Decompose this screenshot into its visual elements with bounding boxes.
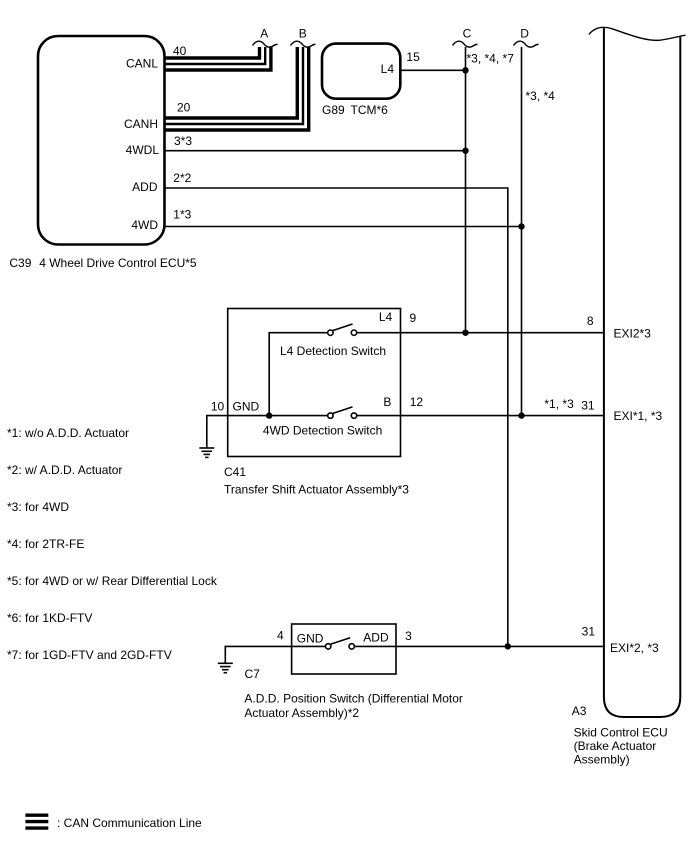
svg-text:8: 8: [587, 314, 594, 328]
svg-text:C: C: [463, 26, 472, 40]
svg-text:2*2: 2*2: [173, 171, 191, 185]
svg-text:*7: for 1GD-FTV and 2GD-FTV: *7: for 1GD-FTV and 2GD-FTV: [7, 648, 172, 662]
ground (C7): [218, 663, 233, 672]
node A break symbol: [253, 41, 278, 47]
ECU C39 box: [38, 36, 165, 245]
wire GND branch inside C41: [228, 415, 328, 417]
svg-text:9: 9: [410, 311, 417, 325]
svg-text:*3: for 4WD: *3: for 4WD: [7, 500, 69, 514]
svg-text:G89: G89: [322, 103, 345, 117]
svg-text:*5: for 4WD or w/ Rear Differe: *5: for 4WD or w/ Rear Differential Lock: [7, 574, 218, 588]
svg-text:15: 15: [406, 50, 420, 64]
svg-text:D: D: [520, 26, 529, 40]
node D break symbol: [514, 41, 539, 47]
svg-text:ADD: ADD: [132, 180, 158, 194]
svg-text:*3, *4: *3, *4: [526, 89, 556, 103]
svg-text:4: 4: [277, 629, 284, 643]
node C break symbol: [453, 41, 478, 47]
wire L4 to node C: [400, 69, 465, 71]
svg-text:EXI*2, *3: EXI*2, *3: [610, 641, 659, 655]
svg-text:40: 40: [173, 44, 187, 58]
svg-text:10: 10: [211, 399, 225, 413]
svg-text:B: B: [299, 26, 307, 40]
TCM G89 box: [322, 44, 400, 99]
svg-text:12: 12: [410, 395, 424, 409]
wire 9 to EXI2: [357, 332, 604, 334]
junction ADD-wire at C7 row: [505, 643, 511, 649]
node B break symbol: [291, 41, 316, 47]
svg-text:A: A: [260, 26, 268, 40]
svg-text:4WDL: 4WDL: [126, 143, 160, 157]
wire CANH CAN-bus to node B: [165, 47, 309, 130]
wire ADD down to C7 row: [165, 188, 508, 646]
svg-text:EXI2*3: EXI2*3: [614, 326, 652, 340]
svg-text:31: 31: [582, 625, 596, 639]
Skid Control ECU A3 box: [604, 28, 680, 717]
switch 4WD Detection Switch: [328, 413, 333, 418]
node D vertical wire: [521, 47, 523, 416]
wire 4WD to node D: [165, 226, 522, 228]
svg-text:31: 31: [581, 399, 595, 413]
svg-text:C7: C7: [245, 667, 261, 681]
switch A.D.D. Position Switch: [326, 644, 331, 649]
junction on node D at 4WD-wire: [518, 223, 524, 229]
legend CAN communication line symbol: [25, 815, 48, 828]
svg-text:*3, *4, *7: *3, *4, *7: [467, 52, 515, 66]
svg-text:4WD: 4WD: [131, 218, 158, 232]
svg-text:C39: C39: [9, 256, 31, 270]
wire 4 to ground: [225, 646, 325, 662]
junction on node C at 4WDL-wire: [462, 148, 468, 154]
junction inside C41: [266, 412, 272, 418]
svg-text:TCM*6: TCM*6: [351, 103, 389, 117]
svg-text:4WD Detection Switch: 4WD Detection Switch: [263, 424, 382, 438]
svg-text:CANH: CANH: [124, 117, 158, 131]
ground (C41): [199, 448, 214, 457]
wire 12 to EXI*1: [357, 415, 604, 417]
node C vertical wire: [465, 47, 467, 333]
svg-text:3: 3: [405, 629, 412, 643]
svg-text:: CAN Communication Line: : CAN Communication Line: [57, 816, 202, 830]
svg-text:20: 20: [177, 101, 191, 115]
svg-text:L4: L4: [381, 62, 395, 76]
svg-text:Actuator Assembly)*2: Actuator Assembly)*2: [244, 706, 359, 720]
svg-text:L4: L4: [379, 310, 393, 324]
svg-text:3*3: 3*3: [174, 134, 192, 148]
svg-text:*6: for 1KD-FTV: *6: for 1KD-FTV: [7, 611, 92, 625]
C7 A.D.D. position switch box: [292, 624, 396, 674]
junction on node C at 15-wire: [462, 67, 468, 73]
svg-text:*1, *3: *1, *3: [544, 397, 574, 411]
svg-text:ADD: ADD: [363, 630, 389, 644]
svg-text:GND: GND: [297, 631, 324, 645]
svg-text:*1: w/o A.D.D. Actuator: *1: w/o A.D.D. Actuator: [7, 426, 129, 440]
svg-text:Assembly): Assembly): [574, 753, 630, 767]
junction node D end: [518, 412, 524, 418]
svg-text:*4: for 2TR-FE: *4: for 2TR-FE: [7, 537, 84, 551]
svg-text:A3: A3: [572, 704, 587, 718]
wire 4WDL to node C: [165, 150, 466, 152]
svg-text:4 Wheel Drive Control ECU*5: 4 Wheel Drive Control ECU*5: [39, 256, 197, 270]
wire L4-switch left branch: [269, 333, 328, 416]
svg-text:B: B: [383, 395, 391, 409]
junction node C end: [462, 330, 468, 336]
svg-text:Skid Control ECU: Skid Control ECU: [574, 726, 668, 740]
svg-text:Transfer Shift Actuator Assemb: Transfer Shift Actuator Assembly*3: [224, 483, 409, 497]
wire 3 to EXI*2: [354, 645, 604, 647]
wire 10 to ground: [207, 416, 228, 448]
wire CANL CAN-bus to node A: [165, 47, 271, 70]
svg-text:C41: C41: [224, 465, 246, 479]
A3 box top wavy break edge: [589, 27, 686, 40]
C41 box: [228, 309, 401, 457]
svg-text:L4 Detection Switch: L4 Detection Switch: [280, 344, 386, 358]
svg-text:1*3: 1*3: [173, 208, 191, 222]
svg-text:(Brake Actuator: (Brake Actuator: [574, 739, 657, 753]
switch L4 Detection Switch: [328, 330, 333, 335]
svg-text:CANL: CANL: [126, 57, 158, 71]
svg-text:EXI*1, *3: EXI*1, *3: [614, 409, 663, 423]
svg-text:GND: GND: [233, 399, 260, 413]
svg-text:A.D.D. Position Switch (Differ: A.D.D. Position Switch (Differential Mot…: [244, 692, 463, 706]
svg-text:*2: w/ A.D.D. Actuator: *2: w/ A.D.D. Actuator: [7, 463, 122, 477]
